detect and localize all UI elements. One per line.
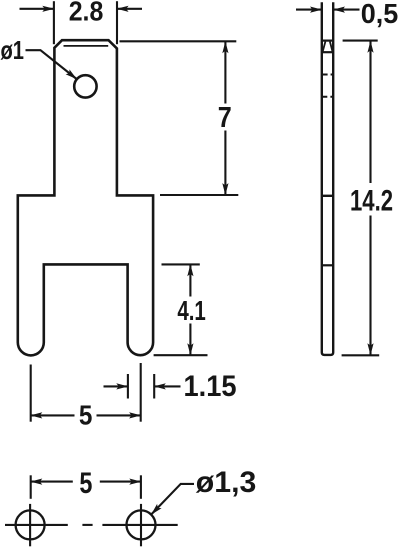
svg-text:5: 5 bbox=[79, 467, 92, 500]
hole pattern circle left bbox=[16, 510, 45, 539]
side view segment tick marks y96.7 bbox=[321, 96, 334, 98]
centerline right circle horizontal bbox=[102, 524, 177, 526]
svg-text:5: 5 bbox=[79, 399, 93, 430]
dim 7 line upper bbox=[224, 42, 226, 104]
leader o1 bbox=[26, 50, 77, 79]
dim 5 bottom ext right bbox=[140, 475, 142, 499]
dim 14.2 ext bottom bbox=[342, 354, 380, 356]
dim 1.15 ext left bbox=[127, 374, 129, 399]
dim 2.8 ext left bbox=[53, 1, 55, 44]
dim 5 front ext right bbox=[140, 363, 142, 422]
side view shoulder line y196 bbox=[321, 195, 333, 197]
dim 4.1 line lower bbox=[189, 324, 191, 355]
dim 5 bottom line right bbox=[100, 481, 141, 483]
dim 5 bottom ext left bbox=[30, 475, 32, 499]
leader o1,3 bbox=[151, 484, 194, 515]
side view break line y40.6 bbox=[321, 39, 333, 41]
svg-text:14.2: 14.2 bbox=[350, 185, 393, 218]
side view slot line y265.7 bbox=[321, 264, 333, 266]
centerline left circle vertical bbox=[29, 504, 31, 546]
centerline left circle horizontal bbox=[5, 524, 68, 526]
dim 4.1 ext bottom bbox=[154, 354, 208, 356]
svg-text:7: 7 bbox=[218, 102, 232, 134]
svg-text:0,5: 0,5 bbox=[361, 0, 399, 29]
svg-text:2.8: 2.8 bbox=[69, 0, 104, 27]
side view outline bbox=[322, 2, 333, 355]
hole pattern circle right bbox=[127, 510, 156, 539]
tab rolled-edge inner line bbox=[64, 45, 109, 47]
hole o1 bbox=[74, 75, 96, 97]
centerline dash between circles bbox=[82, 524, 92, 526]
dim 1.15 arrow left bbox=[104, 385, 128, 387]
dim 5 front line left bbox=[31, 414, 75, 416]
dim 7 ext bottom bbox=[160, 194, 238, 196]
dim 2.8 arrow left bbox=[20, 8, 54, 10]
dim 0,5 arrow left bbox=[296, 9, 322, 11]
dim 14.2 line upper bbox=[369, 41, 371, 183]
dim 2.8 ext right bbox=[116, 1, 118, 44]
svg-text:1.15: 1.15 bbox=[184, 370, 237, 403]
dim 5 front line right bbox=[97, 414, 141, 416]
dim 0,5 arrow right bbox=[333, 9, 359, 11]
svg-text:ø1,3: ø1,3 bbox=[196, 466, 256, 499]
dim 1.15 arrow right bbox=[154, 385, 180, 387]
dim 4.1 line upper bbox=[189, 265, 191, 297]
dim 7 ext top bbox=[120, 40, 237, 42]
dim 7 line lower bbox=[224, 131, 226, 195]
dim 5 front ext left bbox=[30, 365, 32, 422]
side view line y52.2 bbox=[321, 51, 334, 53]
svg-text:4.1: 4.1 bbox=[177, 295, 206, 326]
dim 14.2 line lower bbox=[369, 216, 371, 355]
dim 5 bottom line left bbox=[31, 481, 73, 483]
dim 1.15 ext right bbox=[153, 374, 155, 399]
side view segment tick marks y74.5 bbox=[321, 74, 334, 76]
dim 4.1 ext top bbox=[162, 263, 200, 265]
front view: tab body outline bbox=[18, 40, 153, 355]
svg-text:ø1: ø1 bbox=[1, 35, 25, 65]
centerline right circle vertical bbox=[140, 504, 142, 546]
dim 14.2 ext top bbox=[343, 40, 378, 42]
dim 2.8 arrow right bbox=[117, 8, 142, 10]
side view tip bevel bbox=[323, 42, 333, 52]
